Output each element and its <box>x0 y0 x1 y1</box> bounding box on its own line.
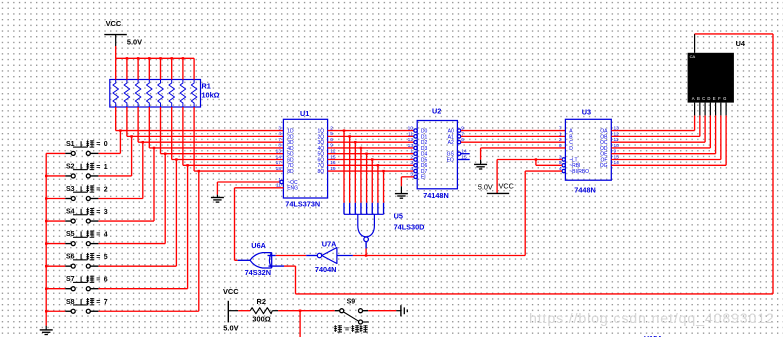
svg-text:5: 5 <box>104 254 108 261</box>
svg-text:S2: S2 <box>66 163 75 170</box>
svg-text:=: = <box>96 164 100 171</box>
svg-text:15: 15 <box>461 154 467 160</box>
svg-text:U3: U3 <box>582 108 591 117</box>
svg-text:74148N: 74148N <box>423 191 449 200</box>
svg-text:2: 2 <box>410 154 413 160</box>
svg-text:13: 13 <box>276 149 282 155</box>
svg-text:U2: U2 <box>432 107 441 116</box>
svg-text:E: E <box>713 96 716 101</box>
svg-text:8Q: 8Q <box>318 169 325 175</box>
svg-text:7: 7 <box>559 126 562 132</box>
svg-text:D: D <box>569 146 573 152</box>
svg-text:=: = <box>345 326 349 333</box>
svg-text:=: = <box>96 277 100 284</box>
svg-text:EO: EO <box>447 157 454 163</box>
svg-text:5.0V: 5.0V <box>478 182 493 191</box>
svg-text:4: 4 <box>104 231 108 238</box>
svg-text:ENG: ENG <box>287 186 298 192</box>
svg-text:74S32N: 74S32N <box>245 268 271 277</box>
svg-text:1: 1 <box>104 164 108 171</box>
svg-text:S7: S7 <box>66 276 75 283</box>
svg-text:300Ω: 300Ω <box>252 315 270 324</box>
svg-text:1: 1 <box>410 149 413 155</box>
svg-text:VCC: VCC <box>106 19 122 28</box>
svg-text:R1: R1 <box>202 82 211 91</box>
svg-text:EI: EI <box>421 175 426 181</box>
svg-text:=: = <box>96 209 100 216</box>
svg-text:R2: R2 <box>257 297 266 306</box>
svg-text:10: 10 <box>408 126 414 132</box>
svg-text:74LS30D: 74LS30D <box>394 223 425 232</box>
svg-text:7: 7 <box>104 299 108 306</box>
svg-text:2: 2 <box>559 137 562 143</box>
svg-text:~BI/RBO: ~BI/RBO <box>569 169 589 175</box>
svg-text:7404N: 7404N <box>315 265 337 274</box>
svg-text:S9: S9 <box>347 299 356 306</box>
svg-text:U4: U4 <box>736 39 746 48</box>
svg-text:18: 18 <box>276 166 282 172</box>
svg-text:S8: S8 <box>66 299 75 306</box>
svg-text:=: = <box>96 186 100 193</box>
svg-text:A2: A2 <box>448 140 454 146</box>
svg-text:https://blog.csdn.net/qq_40893: https://blog.csdn.net/qq_40893012 <box>529 311 775 327</box>
svg-text:U1: U1 <box>300 109 309 118</box>
svg-text:S1: S1 <box>66 141 75 148</box>
svg-text:13: 13 <box>408 143 414 149</box>
svg-text:F: F <box>718 96 721 101</box>
svg-text:U7A: U7A <box>322 239 337 248</box>
svg-text:8: 8 <box>278 143 281 149</box>
svg-text:7448N: 7448N <box>574 185 596 194</box>
svg-text:10kΩ: 10kΩ <box>202 91 220 100</box>
svg-text:74LS373N: 74LS373N <box>285 200 320 209</box>
svg-text:4: 4 <box>410 166 413 172</box>
svg-text:2: 2 <box>104 186 108 193</box>
svg-text:14: 14 <box>276 154 282 160</box>
svg-text:OG: OG <box>600 163 608 169</box>
svg-text:14: 14 <box>461 149 467 155</box>
svg-text:S4: S4 <box>66 209 75 216</box>
svg-text:S6: S6 <box>66 254 75 261</box>
svg-text:=: = <box>96 254 100 261</box>
svg-text:U5: U5 <box>394 211 403 220</box>
svg-text:0: 0 <box>104 141 108 148</box>
svg-text:4: 4 <box>278 131 281 137</box>
svg-text:VCC: VCC <box>223 287 239 296</box>
svg-text:S5: S5 <box>66 231 75 238</box>
svg-text:S3: S3 <box>66 186 75 193</box>
svg-text:5.0V: 5.0V <box>127 38 142 47</box>
svg-text:D: D <box>707 96 710 101</box>
svg-text:17: 17 <box>276 160 282 166</box>
svg-text:3: 3 <box>410 160 413 166</box>
svg-text:=: = <box>96 299 100 306</box>
svg-text:VCC: VCC <box>499 182 514 191</box>
svg-text:7: 7 <box>278 137 281 143</box>
svg-text:5.0V: 5.0V <box>223 324 238 333</box>
svg-text:8D: 8D <box>287 169 294 175</box>
svg-text:CA: CA <box>690 54 696 59</box>
svg-text:=: = <box>96 141 100 148</box>
svg-text:B: B <box>697 96 700 101</box>
svg-text:6: 6 <box>104 277 108 284</box>
svg-text:3: 3 <box>104 209 108 216</box>
svg-text:1: 1 <box>559 131 562 137</box>
svg-text:=: = <box>96 231 100 238</box>
svg-text:12: 12 <box>408 137 414 143</box>
svg-text:U6A: U6A <box>251 241 266 250</box>
svg-text:11: 11 <box>408 131 413 137</box>
svg-text:C: C <box>702 96 705 101</box>
svg-text:A: A <box>692 96 695 101</box>
svg-text:3: 3 <box>278 125 281 131</box>
svg-text:G: G <box>723 96 726 101</box>
